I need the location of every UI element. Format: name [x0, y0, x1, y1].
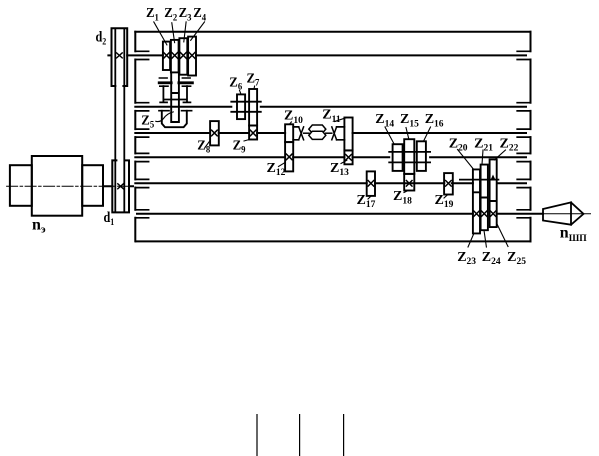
gear Z7: [249, 89, 257, 126]
leader Z15: [406, 128, 409, 140]
leader Z23: [468, 234, 474, 247]
leader Z22: [495, 150, 506, 160]
housing left wall: [134, 32, 136, 242]
leader Z24: [484, 230, 486, 247]
belt: [115, 29, 124, 212]
spindle nose cone: [543, 202, 571, 224]
Z24 fixing cross: [481, 211, 487, 217]
motor shaft: [103, 185, 133, 187]
Z1 fixing cross: [164, 52, 170, 58]
leader Z10: [290, 122, 292, 124]
clutch thick disc right: [179, 81, 193, 84]
right wall bearing ticks: [517, 51, 530, 218]
Z2 fixing cross: [172, 52, 178, 58]
gear Z3: [179, 38, 187, 74]
coupling right toothed joint: [332, 127, 337, 140]
shaft I: [108, 54, 526, 56]
gear Z11: [344, 118, 352, 151]
clutch discs right: [182, 78, 190, 86]
Z12 fixing cross: [286, 154, 292, 160]
gear Z19: [444, 173, 453, 194]
clutch thick disc left: [159, 81, 171, 84]
gear Z6: [237, 94, 245, 119]
coupling lower hexagon: [309, 131, 326, 139]
motor body: [32, 156, 82, 216]
leader Z20: [458, 150, 474, 170]
coupling left toothed joint: [299, 127, 304, 140]
gear Z1: [163, 42, 170, 70]
leader Z7: [253, 86, 256, 89]
gear Z18: [404, 174, 414, 191]
gear block Z21/Z24: [481, 165, 488, 231]
gear block Z20/Z23: [473, 169, 480, 233]
housing top wall: [135, 31, 530, 33]
leader Z17: [368, 196, 371, 199]
table column line 3: [343, 414, 345, 456]
spindle nose arrowhead: [571, 202, 584, 224]
Z23 fixing cross: [474, 211, 480, 217]
shifter arrow marker: [490, 175, 495, 181]
table column line 1: [256, 414, 258, 456]
coupling right flange lines: [337, 127, 345, 140]
Z5 cup top ticks: [159, 110, 192, 112]
clutch sleeve column on shaft II: [171, 72, 179, 122]
leader Z2: [172, 23, 175, 43]
pulley d1: [112, 160, 129, 212]
gear Z8: [210, 121, 219, 145]
gear Z12: [285, 142, 293, 171]
coupling left flange lines: [293, 127, 299, 140]
Z9 fixing cross: [250, 130, 256, 136]
housing bottom wall: [136, 240, 531, 242]
shaft IV: [135, 156, 526, 158]
Z18 fixing cross: [406, 181, 412, 187]
leader Z21: [482, 150, 483, 164]
leader Z4: [191, 22, 205, 40]
gear Z5 cup: [162, 111, 187, 127]
leader Z9: [244, 139, 251, 141]
Z13 fixing cross: [346, 155, 352, 161]
leader Z14: [385, 127, 394, 144]
shaft II: [135, 106, 526, 108]
shaft IV sleeve lines: [389, 152, 430, 163]
clutch drum left stem: [160, 86, 167, 102]
leader Z19: [444, 195, 448, 198]
motor left end cap: [10, 165, 32, 206]
coupling upper hexagon: [309, 125, 326, 133]
coupling center line left: [304, 132, 309, 134]
coupling center line right: [326, 132, 332, 134]
leader Z16: [424, 127, 431, 141]
clutch discs left: [159, 78, 168, 86]
shaft V sleeve line: [460, 179, 499, 181]
leader Z11: [335, 118, 347, 122]
pulley d2: [112, 28, 128, 86]
leader Z18: [404, 191, 408, 193]
shaft II sleeve lines: [231, 102, 260, 112]
Z19 fixing cross: [446, 181, 452, 187]
gear Z2: [171, 40, 179, 73]
gear Z10: [285, 124, 293, 142]
housing right wall: [530, 32, 532, 242]
Z3 fixing cross: [180, 52, 186, 58]
gear Z16: [417, 141, 426, 171]
pulley d2 fixing cross: [117, 53, 123, 58]
leader Z1: [154, 22, 167, 45]
gear Z4: [188, 37, 196, 76]
motor axis centerline: [7, 185, 133, 187]
clutch drum right stem: [184, 86, 191, 102]
left wall bearing ticks: [135, 51, 148, 218]
clutch cross bar: [165, 99, 186, 101]
gear Z17: [367, 171, 375, 196]
Z4 fixing cross: [189, 52, 195, 58]
leader Z5: [156, 112, 174, 122]
leader Z6: [240, 90, 242, 94]
Z17 fixing cross: [368, 181, 374, 187]
leader Z8: [205, 141, 210, 148]
leader Z13: [341, 160, 347, 163]
motor right end cap: [82, 165, 103, 206]
leader Z25: [497, 224, 508, 247]
pulley d1 fixing cross: [118, 184, 124, 189]
leader Z3: [184, 22, 186, 42]
shaft V: [135, 182, 526, 184]
shaft VI spindle: [137, 213, 543, 215]
gear Z15: [404, 139, 414, 174]
Z25 fixing cross: [490, 211, 496, 217]
gear Z9: [249, 126, 257, 140]
gear Z14: [393, 144, 403, 171]
shaft III: [135, 132, 526, 134]
leader Z12: [279, 163, 286, 167]
Z8 fixing cross: [212, 130, 218, 136]
table column line 2: [299, 414, 301, 456]
gear block Z22/Z25: [490, 159, 497, 227]
gear Z13: [344, 150, 352, 164]
spindle centerline: [532, 213, 591, 215]
